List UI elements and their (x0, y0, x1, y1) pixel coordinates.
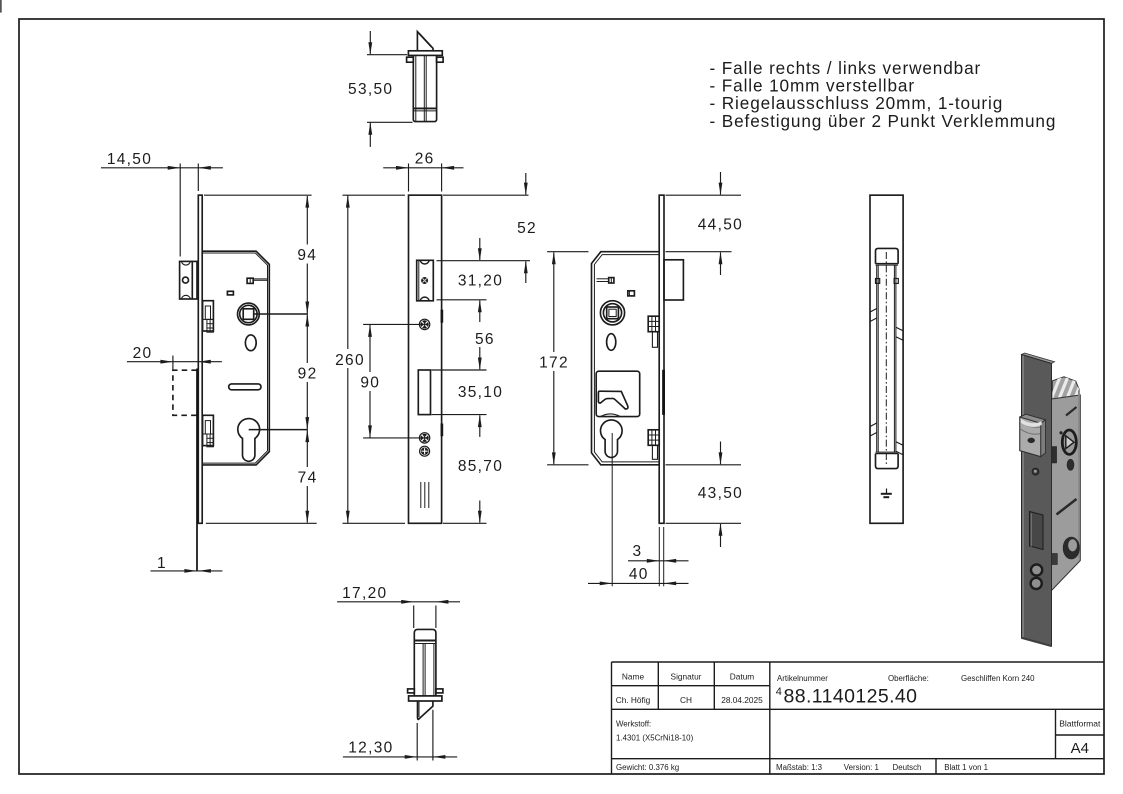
svg-text:Artikelnummer: Artikelnummer (777, 674, 828, 683)
svg-text:Blattformat: Blattformat (1059, 719, 1101, 729)
svg-text:53,50: 53,50 (348, 81, 393, 98)
svg-text:26: 26 (415, 151, 435, 168)
svg-text:92: 92 (298, 366, 318, 383)
svg-text:3: 3 (633, 543, 643, 560)
svg-text:A4: A4 (1071, 740, 1089, 757)
svg-text:1: 1 (157, 555, 167, 572)
svg-text:Deutsch: Deutsch (893, 763, 922, 772)
svg-text:17,20: 17,20 (342, 585, 387, 602)
svg-text:Werkstoff:: Werkstoff: (616, 720, 651, 729)
svg-text:35,10: 35,10 (458, 384, 503, 401)
svg-text:90: 90 (360, 374, 380, 391)
svg-text:31,20: 31,20 (458, 273, 503, 290)
svg-text:Geschliffen Korn 240: Geschliffen Korn 240 (961, 674, 1035, 683)
svg-text:20: 20 (133, 345, 153, 362)
svg-text:52: 52 (517, 220, 537, 237)
svg-text:260: 260 (335, 352, 365, 369)
svg-text:Datum: Datum (730, 672, 755, 682)
svg-text:- Befestigung über 2 Punkt Ver: - Befestigung über 2 Punkt Verklemmung (710, 111, 1057, 131)
svg-text:4: 4 (776, 686, 782, 698)
svg-text:56: 56 (475, 331, 495, 348)
svg-text:Signatur: Signatur (671, 672, 702, 682)
svg-text:14,50: 14,50 (107, 151, 152, 168)
svg-text:172: 172 (539, 355, 569, 372)
svg-text:28.04.2025: 28.04.2025 (721, 695, 763, 705)
svg-text:Maßstab: 1:3: Maßstab: 1:3 (776, 763, 823, 772)
svg-text:85,70: 85,70 (458, 458, 503, 475)
svg-text:Gewicht: 0.376 kg: Gewicht: 0.376 kg (616, 763, 679, 772)
svg-text:Ch. Höfig: Ch. Höfig (616, 695, 651, 705)
svg-text:Name: Name (622, 672, 645, 682)
svg-text:74: 74 (298, 469, 318, 486)
svg-text:12,30: 12,30 (348, 740, 393, 757)
svg-text:1.4301 (X5CrNi18-10): 1.4301 (X5CrNi18-10) (616, 734, 694, 743)
svg-text:Blatt 1 von 1: Blatt 1 von 1 (944, 763, 988, 772)
svg-text:Oberfläche:: Oberfläche: (888, 674, 929, 683)
svg-text:Version: 1: Version: 1 (844, 763, 879, 772)
svg-text:94: 94 (297, 247, 317, 264)
svg-text:44,50: 44,50 (698, 217, 743, 234)
svg-text:88.1140125.40: 88.1140125.40 (784, 686, 918, 708)
svg-text:CH: CH (680, 695, 692, 705)
svg-text:43,50: 43,50 (698, 485, 743, 502)
svg-text:40: 40 (629, 566, 649, 583)
